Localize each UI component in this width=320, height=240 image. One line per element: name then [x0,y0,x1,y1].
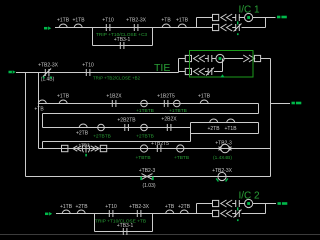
wire TIE riser [178,59,180,73]
svg-text:+TB2-3X: +TB2-3X [126,18,147,24]
contact TIE row1 [208,55,212,62]
svg-text:+TB: +TB [161,18,171,24]
drawout chevrons right [91,146,100,151]
svg-text:TRIP +T10/CLOSE +TB: TRIP +T10/CLOSE +TB [95,218,146,224]
wire bottom return [26,176,271,178]
contact 1B2T5 [164,100,168,107]
green ticks breaker return [216,179,228,182]
green tick IC1 row1 [237,21,238,24]
wire IC2 row1 mid [232,203,236,205]
wire top sub-loop bottom [93,45,153,47]
wire top sub-loop right [152,28,154,46]
contact 2B2TB [125,124,129,131]
wire IC2 row2 out [242,213,266,215]
wire IC1 left riser [196,18,198,28]
wire top sub-loop left [92,28,94,46]
green triangle marker TIE [220,74,224,77]
wire rung B left segment [43,127,191,129]
switch hump top 2 [74,24,82,27]
wire TIE row1 out [224,58,243,60]
breaker circle TB2-3X return [218,172,226,180]
relay circle A1 [141,100,148,107]
plug chevrons IC1 row2 [221,24,232,31]
wire long right vertical [270,59,272,177]
green tick drawout [85,154,87,157]
svg-text:TRIP +T10/CLOSE +C3: TRIP +T10/CLOSE +C3 [96,32,147,38]
wire top rung [55,27,197,29]
svg-text:(1.03): (1.03) [142,183,155,189]
svg-text:+1TB: +1TB [72,18,85,24]
wire bottom sub-loop right [152,214,154,232]
plug chevrons TIE row1 [194,55,205,62]
svg-text:+1TB: +1TB [198,94,211,100]
contact IC1 row1 [236,14,240,21]
switch hump bot2 [77,210,85,213]
switch hump B1 [79,124,87,127]
switch hump A2 [59,100,67,103]
wire stub to tag [271,103,291,105]
wire rung C return jog [190,134,192,142]
switch hump bot1 [62,210,70,213]
terminal square TIE out [254,55,260,61]
terminal square TIE row2 [185,68,191,74]
plug chevrons IC2 row2 [221,210,232,217]
wire loop B left edge [42,114,44,128]
terminal square C1 [62,145,68,151]
wire IC2 row2 mid [232,213,236,215]
wire rung C [39,148,271,150]
svg-text:+TB: +TB [34,106,44,112]
svg-text:+TB2: +TB2 [78,143,90,148]
lamp green core IC1 [247,16,250,19]
disconnect X symbol [142,174,153,180]
TIE enclosure box [190,51,254,78]
wire TIE row1 to lamp [212,58,216,60]
green tick IC2 row1 [237,207,238,210]
green ticks X symbol [140,177,153,181]
contact NC TB2-3X main [43,69,51,77]
svg-text:+1B2T5: +1B2T5 [157,94,175,100]
svg-text:+T10: +T10 [105,204,117,210]
wire rung B jog [190,123,192,134]
svg-text:TIE: TIE [154,62,170,74]
contact NC TIE row2 [206,68,214,76]
wire bottom rung [56,213,197,215]
svg-text:+T10: +T10 [82,62,94,68]
wire IC1 row2 in [197,27,213,29]
lamp circle TIE [216,54,224,62]
wire IC2 left riser [196,204,198,214]
svg-text:+TB2-3X: +TB2-3X [212,168,233,174]
svg-text:+TB2-3: +TB2-3 [215,141,232,147]
green dot IC1 row2 [237,33,239,35]
svg-text:(1.4X4B): (1.4X4B) [213,155,232,161]
green dots main NC [43,77,52,79]
wire IC1 row1 out [253,17,276,19]
wire bottom sub-loop left [94,214,96,232]
plug chevrons IC2 row1 [221,200,232,207]
contact TB3-1 bottom loop [123,228,127,235]
wire IC1 row1 in [197,17,213,19]
lamp green core TIE [219,57,222,60]
svg-text:+1B2X: +1B2X [106,94,122,100]
drawout paren left [82,145,83,153]
wire IC1 row1 mid [232,17,236,19]
svg-text:+1TBTB: +1TBTB [169,108,187,114]
svg-text:+TB2T5: +TB2T5 [151,141,169,147]
wire rung A return [43,113,259,115]
wire main input [16,72,179,74]
lamp circle IC2 [245,199,253,207]
svg-text:+TB2-3X: +TB2-3X [38,62,59,68]
switch hump bot3 [166,210,174,213]
wire IC1 row2 mid [232,27,236,29]
wire TIE row1 mid [205,58,208,60]
contact TB2-3X top [134,24,138,31]
switch hump A1 [38,100,46,103]
switch hump B2r [210,119,218,122]
terminal square IC1 row2 [213,24,219,30]
plug chevrons TIE out [243,55,254,62]
green out-tag rung A [292,102,302,105]
breaker circle TB2-3 [221,144,229,152]
contact T10 top [106,24,110,31]
switch hump top 4 [178,24,186,27]
terminal square IC2 row1 [213,200,219,206]
svg-text:I/C 2: I/C 2 [239,191,261,202]
green in-tag main [9,70,16,74]
contact TB2T5 [157,145,161,152]
svg-text:+2TB: +2TB [75,204,88,210]
wire TIE out to vertical [261,58,271,60]
plug chevrons IC1 row1 [221,14,232,21]
wire rung A right edge [258,104,260,114]
wire IC2 row1 out [253,203,276,205]
svg-text:+2TB: +2TB [178,204,191,210]
switch hump A3 [200,100,208,103]
terminal square C2 [100,145,106,151]
relay circle A2 [174,100,181,107]
svg-text:+1TB: +1TB [57,18,70,24]
relay circle B1 [98,124,105,131]
plug chevrons TIE row2 [194,68,205,75]
wire IC1 row2 out [242,27,266,29]
wire left return bus [25,73,27,177]
contact NC IC2 row2 [234,210,242,218]
drawout bar [85,145,87,153]
wire bottom sub-loop bottom [95,231,153,233]
wire TIE row1 stub [179,58,186,60]
breaker ticks TB2-3 [219,147,232,151]
wire TIE row2 out [214,71,223,73]
contact IC2 row1 [236,200,240,207]
svg-text:+TB: +TB [165,204,175,210]
wire IC2 right riser [265,204,267,214]
wire left feed bus [38,73,40,149]
wire loop C left edge [42,142,44,149]
wire rung B right edge [258,123,260,134]
svg-text:+2TBTB: +2TBTB [136,134,154,140]
contact TB3-1 sub-loop [120,42,124,49]
switch hump B3r [227,119,235,122]
wire rung C return [43,141,191,143]
svg-text:+TB2-3: +TB2-3 [139,168,156,174]
svg-text:+1TB: +1TB [57,94,70,100]
svg-text:+TB2-3X: +TB2-3X [129,204,150,210]
wire IC2 row2 in [197,213,213,215]
contact TB2-3X bottom [137,210,141,217]
terminal square IC1 row1 [213,14,219,20]
green out-tag IC2 [278,202,288,205]
svg-text:I/C 1: I/C 1 [239,5,261,16]
wire rung B lower right [191,133,259,135]
svg-text:(1.4B): (1.4B) [41,77,55,83]
svg-text:+2B2TB: +2B2TB [117,118,136,124]
drawout chevrons left [73,146,82,151]
wire IC1 right riser [265,18,267,28]
wire TIE row2 mid [205,71,208,73]
svg-text:+2TB: +2TB [207,126,220,132]
svg-text:+2B2X: +2B2X [161,117,177,123]
svg-text:+1TBTB: +1TBTB [136,108,154,114]
svg-text:+1TB: +1TB [176,18,189,24]
switch hump bot4 [180,210,188,213]
switch hump top 3 [162,24,170,27]
terminal square TIE row1 [185,55,191,61]
green in-tag bottom [45,212,52,216]
svg-text:+T1B: +T1B [224,126,237,132]
drawout paren right [88,145,89,153]
contact T10 main [86,69,90,76]
terminal square IC2 row2 [213,210,219,216]
svg-text:+2TB: +2TB [76,131,89,137]
contact T10 bottom [109,210,113,217]
lamp green core IC2 [247,202,250,205]
green in-tag top rung [44,26,51,30]
green dot IC2 row2 [237,219,239,221]
wire rung B upper right [191,122,259,124]
contact NC IC1 row2 [234,24,242,32]
svg-text:+TBTB: +TBTB [174,155,189,161]
wire IC1 row1 to lamp [239,17,244,19]
svg-text:+2TBTB: +2TBTB [93,134,111,140]
switch hump top 1 [59,24,67,27]
lamp circle IC1 [245,13,253,21]
relay circle B2 [141,124,148,131]
relay circle C2 [177,145,184,152]
wire TIE row2 in [179,71,186,73]
bottom frame edge [0,234,320,236]
svg-text:+1TB: +1TB [60,204,73,210]
wire rung A [39,103,259,105]
contact 2B2X [167,124,171,131]
relay circle C1 [140,145,147,152]
contact 1B2X [112,100,116,107]
wire IC2 row1 to lamp [239,203,244,205]
wire IC2 row1 in [197,203,213,205]
green out-tag IC1 [277,16,287,19]
wire TIE inner riser [222,59,224,72]
svg-text:+TBTB: +TBTB [135,155,150,161]
svg-text:TRIP +TB2/CLOSE +B2: TRIP +TB2/CLOSE +B2 [93,76,141,81]
svg-text:+T10: +T10 [102,18,114,24]
